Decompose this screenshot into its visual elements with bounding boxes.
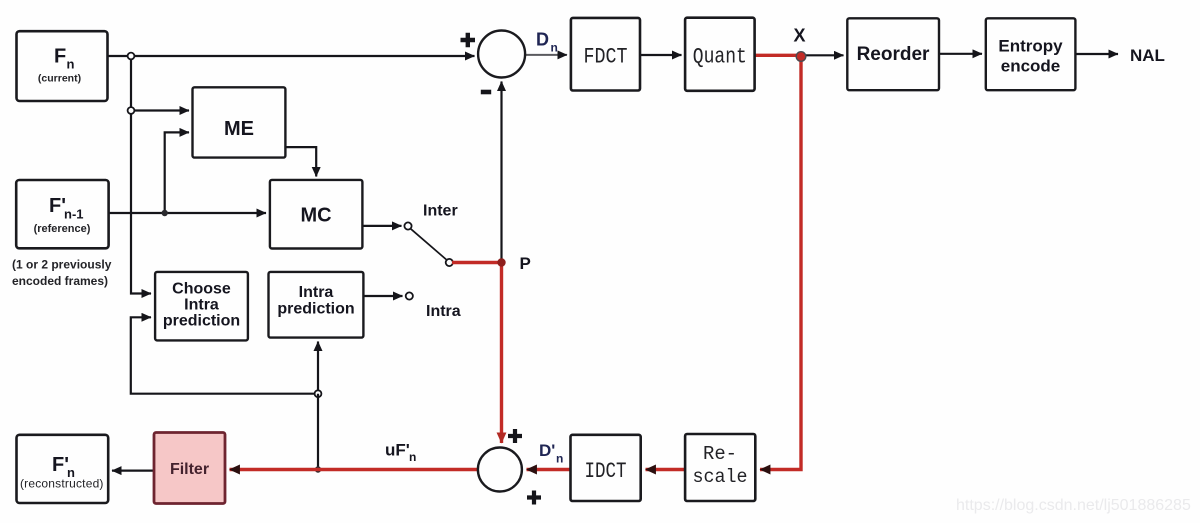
wire feedback left to Choose Intra input 2 [131,317,318,393]
box Choose Intra prediction [155,272,248,341]
svg-text:Re-: Re- [703,443,737,465]
svg-text:prediction: prediction [277,301,354,318]
node junction on uF'n line [315,466,321,472]
wire MC output to Inter switch contact [362,225,401,227]
box Fn current [17,31,108,101]
svg-text:Choose: Choose [172,281,231,298]
svg-text:n: n [556,452,563,466]
adder circle bottom [478,448,522,492]
svg-text:Intra: Intra [299,284,334,301]
svg-text:encoded frames): encoded frames) [12,274,108,288]
node junction below Fn [128,53,135,60]
svg-text:n: n [67,57,75,72]
svg-text:ME: ME [224,118,254,140]
box Re-scale [685,434,755,501]
wire red switch pole to P [452,261,502,264]
box Quant [685,18,755,91]
svg-text:uF': uF' [385,441,410,460]
minus sign top adder [481,90,491,95]
node junction on F'n-1 line [162,210,168,216]
svg-text:(current): (current) [38,73,81,85]
svg-text:https://blog.csdn.net/lj501886: https://blog.csdn.net/lj501886285 [956,497,1191,514]
svg-text:encode: encode [1001,57,1061,76]
box ME [193,87,286,157]
node junction ME branch [128,107,135,114]
svg-text:Filter: Filter [170,461,209,478]
wire Reorder to Entropy encode [939,53,982,55]
wire Intra prediction output to Intra contact [363,295,402,297]
wire switch arm [411,229,447,260]
plus sign bottom adder top [508,429,522,443]
wire red X down and into Re-scale [760,55,801,469]
svg-text:FDCT: FDCT [584,45,628,70]
wire red P down to adder2 plus input [500,263,503,444]
svg-text:n: n [551,41,558,55]
wire Entropy encode to NAL [1075,53,1118,55]
wire P up to adder minus input [500,82,502,263]
wire adder to FDCT [525,54,567,56]
wire branch to ME input 1 [131,109,189,111]
plus sign bottom adder lower [527,491,541,505]
wire red IDCT to adder2 [527,468,571,471]
svg-text:Quant: Quant [693,45,747,70]
box Reorder [847,18,939,90]
svg-text:IDCT: IDCT [585,459,627,484]
box F'n reconstructed [17,435,109,503]
svg-text:D': D' [539,441,555,460]
wire branch to ME input 2 [165,132,189,213]
svg-text:P: P [520,254,531,273]
node Inter switch contact [404,222,411,229]
node Intra switch contact [406,292,413,299]
svg-text:(reconstructed): (reconstructed) [20,477,104,491]
box MC [270,180,363,249]
wire red Re-scale to IDCT [646,468,686,471]
wire feedback down to uF'n line [317,394,319,470]
svg-text:NAL: NAL [1130,46,1165,65]
node P junction [497,258,505,266]
node feedback junction [315,390,322,397]
wire X to Reorder [805,54,844,56]
svg-text:Inter: Inter [423,203,458,220]
node X junction [796,52,806,62]
svg-text:n-1: n-1 [64,207,84,222]
svg-text:n: n [409,450,416,464]
wire vertical branch from Fn down to Choose Intra input 1 [131,56,151,294]
svg-text:F: F [54,46,66,68]
wire Filter output to F'n reconstructed [112,470,154,472]
svg-text:scale: scale [693,466,748,488]
wire FDCT to Quant [640,54,682,56]
svg-text:Intra: Intra [184,297,219,314]
box Entropy encode [986,18,1076,90]
box FDCT [571,18,640,91]
wire red Quant output to X [755,54,801,57]
svg-text:D: D [536,30,549,50]
box F'n-1 reference [16,180,108,248]
svg-text:prediction: prediction [163,313,240,330]
box Intra prediction [269,272,364,338]
svg-text:Intra: Intra [426,303,461,320]
box Filter [154,433,225,504]
wire ME output to MC top [285,147,316,176]
plus sign top adder [461,33,476,48]
box IDCT [571,435,641,501]
svg-text:X: X [794,26,806,46]
wire Fn output to adder [108,55,475,57]
svg-text:Entropy: Entropy [998,37,1063,56]
svg-text:(reference): (reference) [34,223,91,235]
wire red uF'n adder2 to Filter [230,468,479,471]
node switch pole contact [446,259,453,266]
svg-text:Reorder: Reorder [857,44,930,65]
adder circle top [478,31,525,78]
wire feedback up into Intra prediction bottom [317,342,319,394]
svg-text:(1 or 2 previously: (1 or 2 previously [12,258,112,272]
svg-text:MC: MC [300,205,331,227]
wire F'n-1 output to MC [109,212,266,214]
